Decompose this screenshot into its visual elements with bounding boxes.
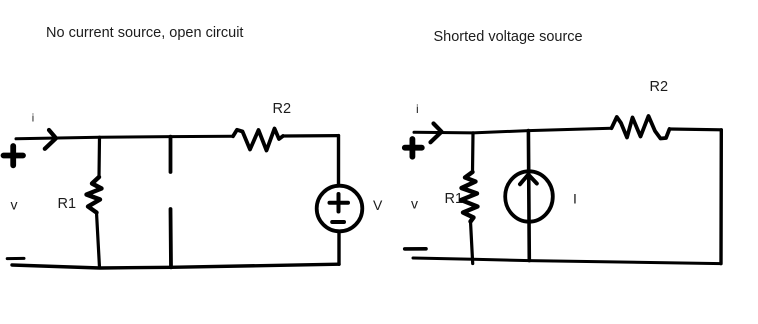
svg-text:R2: R2 — [273, 101, 292, 117]
svg-text:i: i — [416, 102, 419, 116]
svg-text:I: I — [573, 191, 577, 207]
wire: left circuit bottom wire — [12, 264, 339, 268]
wire: right circuit bottom wire — [413, 258, 721, 264]
wire: right edge vertical (shorted source) — [719, 130, 723, 264]
wire: current source branch shaft — [527, 131, 531, 261]
minus terminal (right) — [405, 247, 426, 251]
wire: right circuit top wire — [414, 128, 612, 133]
plus terminal (right) — [405, 139, 422, 157]
wire: right vertical below source (left) — [337, 232, 340, 265]
wire: left circuit top wire — [16, 136, 233, 139]
svg-text:R2: R2 — [650, 79, 669, 95]
wire: right vertical above source (left) — [337, 136, 340, 186]
wire: R2 to top-right corner (right) — [670, 127, 722, 131]
open circuit branch: bottom stub — [169, 209, 173, 267]
open circuit branch: top stub — [169, 137, 173, 172]
svg-text:No current source, open circui: No current source, open circuit — [46, 25, 243, 41]
minus terminal (left) — [7, 257, 24, 260]
svg-text:Shorted voltage source: Shorted voltage source — [434, 29, 583, 45]
current source arrowhead — [520, 175, 537, 185]
wire: R2 to top-right corner (left) — [283, 134, 339, 138]
resistor R1 (right, vertical squiggle) — [471, 133, 475, 172]
svg-text:v: v — [11, 197, 18, 213]
svg-text:v: v — [411, 196, 418, 212]
resistor R2 (left, horizontal zigzag) — [233, 129, 283, 151]
resistor R1 (left, vertical squiggle) — [97, 137, 101, 177]
voltage source plus — [330, 194, 349, 212]
current source I (right circle) — [505, 171, 553, 221]
svg-text:V: V — [373, 197, 383, 213]
current arrow (left) — [45, 130, 56, 149]
voltage source V (left circle) — [317, 186, 363, 232]
resistor R2 (right, horizontal zigzag) — [612, 116, 670, 139]
svg-text:R1: R1 — [58, 196, 77, 212]
voltage source minus — [332, 220, 344, 224]
current arrow (right) — [431, 124, 442, 143]
svg-text:i: i — [32, 113, 34, 125]
plus terminal (left) — [4, 146, 24, 165]
